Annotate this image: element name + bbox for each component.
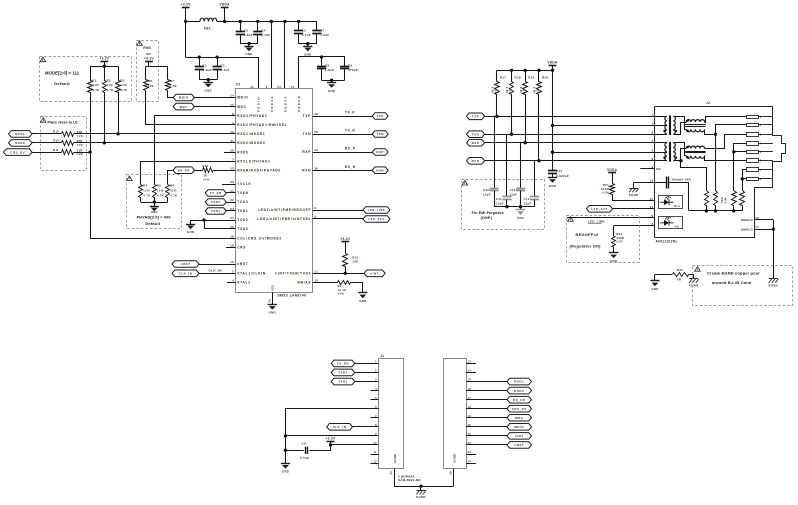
svg-text:470pF: 470pF	[348, 68, 358, 72]
svg-text:12pF: 12pF	[483, 193, 491, 197]
node center tap 1	[551, 124, 554, 127]
svg-text:5: 5	[232, 270, 234, 274]
svg-text:33: 33	[268, 299, 272, 303]
capacitor C9	[340, 66, 349, 68]
wire GND to R23	[655, 274, 672, 276]
capacitor C7	[316, 22, 318, 32]
svg-text:±1%: ±1%	[77, 143, 84, 147]
svg-text:24: 24	[468, 459, 472, 463]
dashed box place close to U1	[41, 117, 87, 171]
svg-text:J2: J2	[706, 101, 710, 105]
wire R8/R7 top join	[146, 66, 168, 68]
svg-text:±1%: ±1%	[523, 87, 526, 93]
svg-text:TXD1: TXD1	[237, 209, 248, 213]
wire rail +3.3V to FB1	[186, 21, 200, 23]
tag RXN left	[372, 167, 388, 174]
wire RXD1 to J1	[466, 381, 507, 383]
wire RXDV stub	[224, 152, 236, 154]
wire C12 drop	[520, 143, 522, 188]
svg-text:28: 28	[314, 130, 318, 134]
svg-text:±1%: ±1%	[143, 189, 150, 193]
tag TXN right	[467, 131, 485, 138]
svg-text:VDD2A: VDD2A	[283, 95, 287, 112]
wire T2 secondary bottom crossover	[674, 149, 687, 161]
svg-text:CRS_DV: CRS_DV	[10, 150, 25, 154]
wire nINT to J1	[466, 435, 507, 437]
resistor R7	[167, 67, 169, 80]
dashed box EMI purposes	[462, 180, 545, 230]
svg-text:R14: R14	[203, 164, 209, 168]
svg-text:1: 1	[651, 113, 653, 117]
svg-text:nRST: nRST	[514, 443, 524, 447]
svg-text:GND: GND	[549, 184, 556, 188]
chassis ground EGND shield	[769, 278, 778, 280]
tag nRST	[172, 261, 199, 268]
svg-text:GND: GND	[282, 470, 289, 474]
svg-text:LED_LINK: LED_LINK	[368, 208, 386, 212]
capacitor C11 DNP	[502, 196, 511, 198]
svg-text:8: 8	[651, 157, 653, 161]
choke lower winding	[686, 156, 704, 158]
ground R22	[613, 247, 615, 253]
svg-text:RX_ER: RX_ER	[513, 398, 526, 402]
svg-text:VDDA: VDDA	[607, 168, 618, 172]
ground under C8/C9	[330, 79, 333, 82]
svg-text:RXCLK/PHYAD1: RXCLK/PHYAD1	[237, 159, 271, 163]
wire R9 to ground	[351, 283, 363, 293]
svg-text:GND: GND	[245, 52, 252, 56]
wire C3-C4 bottom join	[240, 43, 257, 45]
svg-text:GND: GND	[651, 287, 658, 291]
svg-text:VDDIO: VDDIO	[256, 96, 260, 112]
wire R10 to nINT line	[345, 266, 347, 273]
tag RXD1	[9, 131, 33, 138]
transformer primary winding	[655, 142, 667, 144]
svg-text:C5: C5	[302, 28, 306, 32]
svg-text:TXEN: TXEN	[237, 191, 249, 195]
tag RX_ER	[173, 167, 195, 174]
wire shield cap to pin 10	[655, 182, 666, 184]
svg-text:CLK_IN: CLK_IN	[179, 272, 193, 276]
svg-text:11: 11	[314, 270, 318, 274]
svg-text:0.1uF: 0.1uF	[261, 33, 270, 37]
svg-text:around RJ-45 Conn: around RJ-45 Conn	[712, 280, 752, 285]
capacitor C12 DNP	[516, 188, 525, 190]
wire TXP to tag	[313, 116, 372, 118]
dashed box MODE straps	[40, 57, 132, 102]
node +3.3V rail junction	[184, 20, 187, 23]
svg-text:Place close to U1: Place close to U1	[48, 121, 78, 125]
wire RX_ER to J1	[466, 399, 507, 401]
svg-text:VSS: VSS	[270, 285, 274, 291]
wire CLK_IN to J1	[353, 426, 379, 428]
wire center tap 1 to J2	[553, 125, 655, 127]
wire EMI caps bottom rail	[494, 206, 535, 208]
svg-text:GND: GND	[304, 52, 311, 56]
svg-text:C6: C6	[302, 442, 306, 446]
svg-text:TXD1: TXD1	[338, 380, 348, 384]
svg-text:4.7K: 4.7K	[92, 88, 99, 92]
svg-text:0.1uF: 0.1uF	[220, 68, 229, 72]
chassis ground EGND R23	[689, 278, 698, 280]
svg-text:13: 13	[230, 166, 234, 170]
wire LED2 to tag	[313, 218, 363, 220]
svg-text:C13: C13	[524, 197, 530, 201]
wire J1 pin24 stub	[466, 463, 476, 465]
svg-text:C7: C7	[320, 28, 324, 32]
wire choke1 lower out to box2	[705, 130, 716, 135]
wire XTAL2 stub	[227, 282, 236, 284]
RJ45 contact box 8	[747, 178, 759, 181]
tag LED_ACT right	[587, 206, 613, 213]
tag TXD1	[205, 208, 226, 215]
svg-text:4: 4	[651, 122, 653, 126]
svg-text:RX_P: RX_P	[345, 147, 356, 151]
svg-text:RXD3/PHYAD2: RXD3/PHYAD2	[237, 114, 267, 118]
RJ45 contact box 1	[747, 116, 759, 119]
op-amp U1 PHY chip body	[236, 89, 313, 293]
svg-text:C4: C4	[261, 28, 265, 32]
wire R5 to RXD3 pin	[155, 116, 236, 185]
wire VDD1A feed	[271, 22, 273, 90]
dashed box PHYAD straps	[127, 175, 182, 229]
svg-text:EGND: EGND	[629, 193, 639, 197]
svg-text:RMII: RMII	[143, 46, 151, 50]
svg-text:RXN: RXN	[472, 159, 480, 163]
svg-text:20: 20	[230, 180, 234, 184]
svg-text:TXCLK: TXCLK	[237, 182, 251, 186]
wire J1 pin9	[286, 435, 379, 437]
wire nRST to J1	[466, 444, 507, 446]
svg-text:TXN: TXN	[472, 132, 479, 136]
LED box green	[659, 196, 683, 209]
svg-text:CRS: CRS	[237, 246, 246, 250]
svg-text:EGND: EGND	[769, 284, 779, 288]
RJ45 contact box 6	[747, 159, 759, 163]
svg-text:RXP: RXP	[302, 150, 311, 154]
wire rail to shield cap	[669, 183, 689, 211]
svg-text:TXD3: TXD3	[237, 227, 248, 231]
ground RBIAS	[358, 292, 367, 294]
RJ45 contact box 4	[747, 142, 759, 146]
wire J1 pin7 stub	[371, 417, 379, 419]
resistor R10	[343, 254, 348, 267]
svg-text:TXP: TXP	[377, 114, 384, 118]
svg-text:±1%: ±1%	[120, 83, 127, 87]
svg-text:24: 24	[230, 216, 234, 220]
wire TX_EN to J1	[355, 363, 379, 365]
wire TXP line to J2	[485, 116, 655, 118]
svg-text:(DNP): (DNP)	[481, 216, 493, 220]
svg-text:18: 18	[230, 235, 234, 239]
svg-text:RBIAS: RBIAS	[298, 281, 312, 285]
svg-text:0.1uF: 0.1uF	[302, 33, 311, 37]
svg-text:VDDA: VDDA	[219, 3, 230, 7]
wire RXN to tag	[313, 170, 372, 172]
wire choke1 upper out to box1	[705, 117, 747, 123]
svg-text:COL/CRS_DV/MODE2: COL/CRS_DV/MODE2	[237, 237, 282, 241]
ground under C5/C7	[306, 42, 309, 45]
wire TXN line to J2	[485, 134, 655, 136]
svg-text:ANI11102NL: ANI11102NL	[656, 239, 678, 243]
svg-text:C1: C1	[203, 64, 207, 68]
RJ45 contact box 2	[747, 124, 759, 127]
wire VDDA top rail	[217, 21, 317, 23]
wire VDDA stem	[224, 8, 226, 22]
wire RX_ER to R14	[195, 170, 203, 172]
svg-text:4.7K: 4.7K	[120, 88, 127, 92]
wire RJ45 contact 8 stub	[758, 116, 773, 118]
tag TXD1 bottom	[331, 378, 355, 385]
wire T1 secondary top crossover	[674, 117, 687, 130]
svg-text:1.5K: 1.5K	[170, 84, 177, 88]
choke phase dots	[686, 119, 688, 121]
svg-text:RXD0: RXD0	[514, 389, 524, 393]
svg-text:XTAL2: XTAL2	[237, 281, 251, 285]
svg-text:±1%: ±1%	[509, 87, 512, 93]
resistor R4	[139, 185, 143, 198]
svg-text:C12: C12	[510, 188, 516, 192]
transformer phase dots	[663, 130, 666, 133]
capacitor C2	[217, 57, 219, 66]
svg-text:RXP: RXP	[472, 141, 480, 145]
svg-text:GND: GND	[328, 89, 335, 93]
wire LED_ACT to J2 pin11	[613, 208, 655, 210]
wire RXP line to J2	[485, 142, 655, 144]
wire TXD0 to U1	[226, 202, 235, 204]
wire box8 join	[742, 178, 747, 180]
wire MDIO to J1	[466, 426, 507, 428]
svg-text:R19: R19	[528, 76, 534, 80]
LED box yellow	[659, 217, 683, 229]
svg-text:VDDA: VDDA	[547, 60, 558, 64]
wire C5-C7 bottom join	[299, 43, 317, 45]
svg-text:XTAL1/CLKIN: XTAL1/CLKIN	[237, 272, 266, 276]
wire R3 to RXD1 line	[118, 92, 120, 134]
wire terminator 2 tap	[715, 134, 717, 191]
svg-text:nRST: nRST	[181, 262, 191, 266]
svg-text:VDD1A: VDD1A	[270, 95, 274, 112]
tag RXD0	[9, 140, 33, 147]
transformer secondary winding	[673, 116, 675, 134]
svg-text:7: 7	[651, 139, 653, 143]
wire T2 secondary top crossover	[674, 143, 687, 156]
svg-text:4.7K: 4.7K	[143, 193, 150, 197]
resistor RT3 75R	[732, 191, 737, 206]
wire nINT to tag	[313, 273, 364, 275]
wire terminator bottom rail	[689, 210, 742, 212]
svg-text:LED_ACT: LED_ACT	[368, 217, 384, 221]
svg-text:SHIELD: SHIELD	[741, 227, 753, 231]
svg-text:CLK_IN: CLK_IN	[209, 269, 223, 273]
svg-text:±1%: ±1%	[338, 292, 345, 296]
wire J1 pin6 long	[286, 409, 379, 464]
svg-text:R4: R4	[143, 184, 147, 188]
svg-text:R6: R6	[170, 184, 174, 188]
wire LED1 to tag	[313, 210, 363, 212]
svg-text:23: 23	[277, 85, 281, 89]
svg-text:nINT: nINT	[370, 272, 379, 276]
svg-text:1000pF 2KV: 1000pF 2KV	[672, 177, 692, 181]
svg-text:R13: R13	[53, 139, 59, 143]
svg-text:R18: R18	[515, 76, 521, 80]
wire J1 pin11 stub	[371, 454, 379, 456]
wire CRS_DV down to MODE2 pin	[91, 153, 236, 239]
tag TXN left	[372, 131, 388, 138]
svg-text:+3.3V: +3.3V	[326, 437, 336, 441]
svg-text:RX_N: RX_N	[345, 165, 356, 169]
capacitor C10 DNP	[489, 188, 498, 190]
svg-text:R23: R23	[677, 268, 683, 272]
wire MDIO to U1	[194, 97, 235, 99]
tag CRS_DV	[4, 149, 33, 156]
tag RXN right	[467, 158, 485, 165]
wire CLK_IN to U1	[199, 273, 236, 275]
svg-text:nINT: nINT	[515, 434, 524, 438]
tag nINT left	[364, 270, 385, 277]
resistor R9	[338, 281, 351, 285]
wire box7 to terminator	[743, 170, 747, 191]
ferrite bead FB1	[200, 18, 217, 21]
resistor R17	[496, 70, 498, 81]
svg-text:TXD0: TXD0	[338, 371, 348, 375]
resistor RT1 75R	[705, 191, 709, 206]
resistor R12	[62, 132, 74, 137]
svg-text:EGND: EGND	[689, 284, 699, 288]
svg-text:RXD2/PHYAD1/RMIISEL: RXD2/PHYAD1/RMIISEL	[237, 123, 287, 127]
svg-text:RXN: RXN	[302, 168, 311, 172]
wire RXD0 to R13	[32, 142, 61, 144]
svg-text:22: 22	[230, 198, 234, 202]
choke lower winding	[686, 129, 704, 131]
ground C14	[548, 177, 557, 179]
svg-text:TX_EN: TX_EN	[210, 191, 222, 195]
svg-text:RXD1/MODE1: RXD1/MODE1	[237, 132, 265, 136]
J2 shield pin 13	[754, 219, 773, 221]
wire RXP to tag	[313, 152, 372, 154]
svg-text:SHIELD: SHIELD	[741, 218, 753, 222]
svg-text:5: 5	[651, 148, 653, 152]
ground TXD2/TXD3	[190, 220, 192, 224]
node R2 junction	[103, 141, 106, 144]
svg-text:29: 29	[314, 112, 318, 116]
connector J1 left header	[379, 359, 404, 469]
svg-text:TXD1: TXD1	[211, 209, 221, 213]
capacitor C6	[305, 447, 307, 454]
ground EMI caps DNP	[520, 207, 522, 210]
tag RXP left	[372, 149, 388, 156]
svg-text:For EMI Purposes: For EMI Purposes	[472, 211, 504, 215]
chassis ground EGND pin10	[633, 183, 635, 189]
capacitor C1	[199, 57, 201, 66]
tag TXD0	[205, 199, 226, 206]
wire RBIAS to R9	[313, 282, 338, 284]
wire R6 to RX_ER tag	[168, 171, 173, 185]
svg-text:GND: GND	[517, 216, 524, 220]
capacitor C5	[294, 30, 303, 32]
svg-text:26: 26	[230, 148, 234, 152]
svg-text:TX_P: TX_P	[345, 111, 355, 115]
resistor R8	[145, 67, 147, 80]
svg-text:13: 13	[755, 216, 759, 220]
svg-text:RXD0/MODE0: RXD0/MODE0	[237, 141, 265, 145]
svg-text:±1%: ±1%	[77, 134, 84, 138]
svg-text:TXP: TXP	[472, 115, 479, 119]
connector J2 outline	[654, 107, 656, 238]
ground under C1/C2	[207, 78, 210, 81]
svg-text:TXD0: TXD0	[211, 200, 221, 204]
wire J1 pin10	[331, 444, 379, 446]
svg-text:U1: U1	[236, 83, 241, 87]
resistor R20	[537, 69, 540, 72]
svg-text:1.0uF: 1.0uF	[203, 68, 212, 72]
tag CLK_IN bottom	[327, 424, 353, 431]
resistor R23	[673, 273, 689, 277]
svg-text:TX_N: TX_N	[345, 129, 355, 133]
wire TXD1 to J1	[355, 381, 379, 383]
wire J1 pin23 stub	[466, 454, 476, 456]
resistor R13	[62, 141, 74, 146]
wire TXCLK stub	[222, 184, 236, 186]
RJ45 contact box 5	[747, 151, 759, 154]
wire MDC to U1	[194, 106, 235, 108]
resistor R18	[510, 69, 513, 72]
RJ45 contact box 3	[747, 133, 759, 137]
svg-text:C11: C11	[496, 197, 502, 201]
svg-text:EGND: EGND	[452, 454, 456, 463]
wire choke2 lower out to box6	[705, 156, 747, 161]
svg-text:23: 23	[468, 450, 472, 454]
node VDD2A rail	[283, 20, 286, 23]
wire C10 drop	[494, 116, 496, 188]
svg-text:EGND: EGND	[393, 454, 397, 463]
wire TX_EN to U1	[226, 192, 235, 194]
svg-text:TXP: TXP	[303, 114, 312, 118]
svg-text:4.7K: 4.7K	[170, 193, 177, 197]
wire center tap 2 to J2	[553, 152, 655, 154]
tag TXD0 bottom	[331, 369, 355, 376]
svg-text:2: 2	[760, 123, 762, 127]
wire T1 secondary bottom crossover	[674, 123, 687, 135]
wire VDDA vertical to C14	[552, 70, 554, 171]
chassis ground EGND J1	[419, 484, 422, 487]
svg-text:Grn: Grn	[674, 204, 680, 208]
tag RXP right	[467, 139, 485, 146]
svg-text:NC: NC	[656, 167, 661, 171]
svg-text:nRST: nRST	[237, 262, 248, 266]
wire +3.3V to C6	[310, 445, 331, 451]
capacitor C14	[548, 170, 557, 172]
wire C8-C9 bottom join	[322, 80, 345, 82]
wire CRS_DV to R11	[32, 152, 61, 154]
transformer primary winding	[655, 116, 667, 118]
svg-text:R17: R17	[500, 76, 506, 80]
dashed box REGOFF	[567, 216, 640, 263]
svg-text:3: 3	[314, 206, 316, 210]
svg-text:RXN: RXN	[376, 168, 384, 172]
svg-text:+3.3V: +3.3V	[144, 56, 154, 60]
resistor R2	[104, 66, 106, 81]
svg-text:10K: 10K	[352, 259, 359, 263]
node VDDA rail	[223, 20, 226, 23]
svg-text:TXD2: TXD2	[237, 218, 248, 222]
wire R21 to J2 pin12	[613, 195, 655, 201]
wire RXD0 to J1	[466, 390, 507, 392]
wire J1 pin12 stub	[371, 463, 379, 465]
capacitor C4	[257, 22, 259, 32]
svg-text:PHYAD[2:0] = 000: PHYAD[2:0] = 000	[137, 214, 171, 219]
wire R7 to MDIO	[168, 91, 174, 98]
